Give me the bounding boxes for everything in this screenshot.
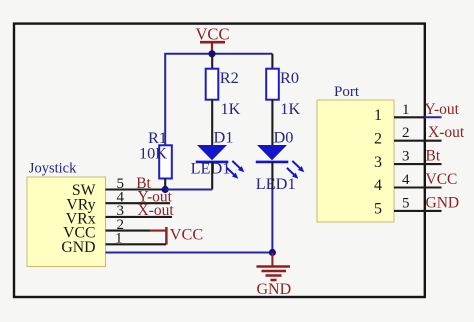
svg-text:1: 1 — [374, 107, 382, 124]
svg-text:1: 1 — [115, 231, 123, 247]
svg-text:GND: GND — [256, 281, 291, 298]
resistor R1 — [148, 128, 172, 179]
svg-text:2: 2 — [374, 130, 382, 147]
node Bt junction — [162, 186, 169, 193]
joystick part — [27, 161, 106, 267]
svg-text:X-out: X-out — [428, 124, 465, 141]
resistor R2 — [206, 68, 239, 100]
svg-text:2: 2 — [402, 125, 410, 141]
wire rail to R0 — [271, 54, 273, 69]
port pin 4 stub — [394, 186, 442, 188]
wire R0 to D0 — [271, 100, 273, 145]
svg-text:R2: R2 — [220, 68, 239, 87]
junction GND node — [269, 249, 276, 256]
svg-text:D1: D1 — [214, 128, 234, 147]
svg-text:Port: Port — [334, 84, 360, 100]
power symbol VCC (pin 2) — [150, 225, 203, 245]
svg-text:1K: 1K — [280, 99, 300, 118]
wire junction to R2 — [211, 54, 213, 69]
svg-text:GND: GND — [61, 239, 95, 256]
pin 1 GND stub — [106, 243, 167, 245]
svg-text:VCC: VCC — [426, 171, 458, 188]
pin 3 VRx stub — [106, 216, 173, 218]
svg-text:VCC: VCC — [170, 225, 203, 244]
svg-text:4: 4 — [402, 172, 410, 188]
svg-text:3: 3 — [402, 149, 410, 165]
wire node Bt to D1 — [165, 189, 212, 191]
port part — [317, 84, 394, 222]
svg-text:VCC: VCC — [195, 25, 229, 44]
resistor R0 — [266, 68, 299, 100]
LED D1 — [191, 128, 245, 179]
svg-text:GND: GND — [426, 194, 460, 211]
port pin 1 stub — [394, 116, 424, 118]
svg-text:3: 3 — [374, 154, 382, 171]
LED D0 — [256, 128, 304, 194]
wire Y-out — [424, 116, 442, 118]
svg-text:4: 4 — [374, 177, 382, 194]
junction VCC rail node — [208, 50, 215, 57]
port pin 3 stub — [394, 163, 442, 165]
svg-text:Y-out: Y-out — [425, 101, 460, 118]
svg-text:D0: D0 — [274, 128, 294, 147]
wire VCC rail — [165, 54, 272, 146]
ground symbol — [257, 253, 291, 281]
svg-text:1: 1 — [402, 102, 410, 118]
port pin 2 stub — [394, 140, 442, 142]
svg-text:1K: 1K — [221, 99, 241, 118]
power symbol VCC (top) — [195, 25, 229, 52]
svg-text:5: 5 — [374, 201, 382, 218]
pin 2 VCC stub — [106, 230, 151, 232]
svg-text:Joystick: Joystick — [29, 161, 77, 177]
wire R1 to node Bt — [164, 179, 166, 190]
pin 5 SW stub — [106, 188, 166, 190]
wire GND net — [106, 252, 273, 254]
wire D0 to GND node — [271, 190, 273, 253]
wire D1 cathode down — [211, 162, 213, 190]
wire R2 to D1 — [211, 100, 213, 145]
wire D0 cathode pin — [271, 162, 273, 190]
svg-text:X-out: X-out — [138, 202, 175, 219]
svg-text:Bt: Bt — [426, 148, 441, 165]
port pin 5 stub — [394, 210, 442, 212]
svg-text:5: 5 — [402, 195, 410, 211]
pin 4 VRy stub — [106, 202, 171, 204]
svg-text:LED1: LED1 — [256, 174, 296, 193]
svg-text:LED1: LED1 — [191, 159, 231, 178]
svg-text:R0: R0 — [280, 68, 299, 87]
svg-text:10K: 10K — [139, 144, 167, 163]
